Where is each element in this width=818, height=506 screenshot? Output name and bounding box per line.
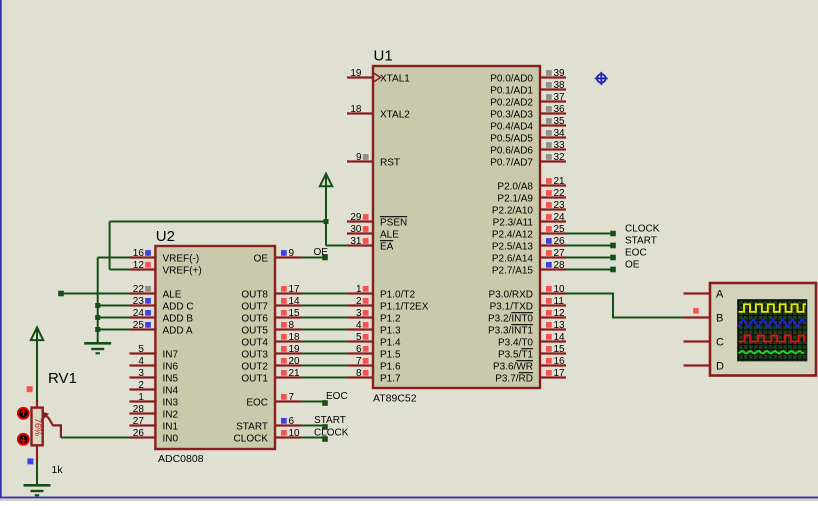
terminal EOC (U2 side) — [322, 400, 328, 406]
svg-text:8: 8 — [356, 368, 362, 379]
svg-text:CLOCK: CLOCK — [314, 428, 349, 439]
svg-text:36: 36 — [554, 104, 566, 115]
scope trace channel D (green wave) — [739, 351, 805, 354]
svg-text:P3.0/RXD: P3.0/RXD — [489, 290, 533, 301]
indicator square near channel B — [693, 308, 699, 314]
svg-text:5: 5 — [138, 344, 144, 355]
svg-text:14: 14 — [554, 332, 566, 343]
svg-text:XTAL2: XTAL2 — [380, 110, 410, 121]
svg-text:OE: OE — [254, 254, 269, 265]
svg-text:14: 14 — [289, 296, 301, 307]
svg-text:P3.6/WR: P3.6/WR — [493, 362, 533, 373]
pin 24 (ADD B) — [129, 308, 193, 325]
pin 7 (P1.6) — [347, 356, 401, 373]
svg-text:28: 28 — [133, 404, 145, 415]
wire OUT1 to P1.7 — [301, 377, 347, 379]
svg-text:39: 39 — [554, 68, 566, 79]
svg-text:ALE: ALE — [380, 230, 399, 241]
junction at ADD C branch — [95, 303, 100, 308]
terminal OE (U1 side) — [610, 267, 616, 273]
indicator square near RV1 — [27, 386, 33, 392]
wire OUT6 to P1.2 — [301, 317, 347, 319]
svg-text:P1.6: P1.6 — [380, 362, 401, 373]
pin 14 (P3.4/T0) — [498, 332, 566, 349]
pin 1 (P1.0/T2) — [347, 284, 415, 301]
svg-text:22: 22 — [133, 284, 145, 295]
pin 24 (P2.3/A11) — [493, 212, 566, 229]
pin 33 (P0.6/AD6) — [490, 140, 566, 157]
svg-text:OUT2: OUT2 — [241, 362, 268, 373]
pin 23 (ADD C) — [129, 296, 193, 313]
svg-text:VREF(+): VREF(+) — [163, 266, 202, 277]
svg-text:9: 9 — [289, 248, 295, 259]
RV1 wiper wire (red part) — [45, 415, 61, 438]
oscilloscope body — [710, 283, 816, 376]
svg-text:27: 27 — [133, 416, 145, 427]
wire U1 P2 to terminal START — [566, 245, 610, 247]
IC U1 AT89C52 body — [373, 66, 540, 388]
oscilloscope channel A pin — [684, 289, 725, 301]
svg-text:4: 4 — [356, 320, 362, 331]
pin 15 (OUT6) — [241, 308, 301, 325]
wire U2 EOC to terminal — [301, 401, 322, 403]
scope trace channel B (blue wave) — [739, 319, 805, 327]
pin 26 (IN0) — [129, 428, 178, 445]
svg-text:P1.1/T2EX: P1.1/T2EX — [380, 302, 429, 313]
svg-text:29: 29 — [350, 212, 362, 223]
wire branch to ADD A — [98, 329, 130, 331]
indicator square near RV1 bottom — [27, 458, 33, 464]
svg-text:1: 1 — [138, 392, 144, 403]
svg-text:P3.1/TXD: P3.1/TXD — [490, 302, 533, 313]
wire wiper to U2 IN0 — [61, 437, 130, 439]
svg-text:1k: 1k — [52, 464, 64, 476]
RV1 top pin — [36, 400, 38, 408]
pin 9 (RST) — [347, 152, 400, 169]
svg-text:P2.7/A15: P2.7/A15 — [492, 266, 534, 277]
scope trace channel A (yellow square wave) — [739, 304, 807, 312]
pin 12 (P3.2/INT0) — [488, 308, 566, 325]
svg-text:P1.2: P1.2 — [380, 314, 401, 325]
svg-text:EA: EA — [380, 242, 394, 253]
svg-text:32: 32 — [554, 152, 566, 163]
svg-text:OUT6: OUT6 — [241, 314, 268, 325]
svg-text:18: 18 — [350, 104, 362, 115]
svg-text:IN2: IN2 — [163, 410, 179, 421]
svg-text:P0.0/AD0: P0.0/AD0 — [490, 74, 533, 85]
wire branch to ADD C — [98, 305, 130, 307]
svg-text:P1.0/T2: P1.0/T2 — [380, 290, 415, 301]
svg-text:P1.4: P1.4 — [380, 338, 401, 349]
svg-text:P2.5/A13: P2.5/A13 — [492, 242, 534, 253]
svg-text:76%: 76% — [33, 418, 43, 436]
pin 22 (ALE) — [129, 284, 181, 301]
svg-text:4: 4 — [138, 356, 144, 367]
pin 18 (OUT4) — [241, 332, 301, 349]
svg-text:START: START — [314, 415, 346, 426]
pin 1 (IN3) — [129, 392, 178, 409]
RV1 decrement handle (down) — [18, 434, 29, 445]
svg-text:17: 17 — [554, 368, 566, 379]
terminal START (U1 side) — [610, 243, 616, 249]
svg-text:AT89C52: AT89C52 — [373, 393, 417, 405]
pin 21 (P2.0/A8) — [497, 176, 566, 193]
svg-text:24: 24 — [133, 308, 145, 319]
svg-text:21: 21 — [289, 368, 301, 379]
wire OUT7 to P1.1 — [301, 305, 347, 307]
pin 21 (OUT1) — [241, 368, 301, 385]
svg-text:23: 23 — [133, 296, 145, 307]
svg-text:10: 10 — [554, 284, 566, 295]
svg-text:15: 15 — [554, 344, 566, 355]
svg-text:CLOCK: CLOCK — [625, 224, 660, 235]
pin 19 (XTAL1) — [347, 68, 410, 85]
svg-text:7: 7 — [289, 392, 295, 403]
svg-text:12: 12 — [133, 260, 145, 271]
svg-text:IN0: IN0 — [163, 434, 179, 445]
wire U1 P2 to terminal CLOCK — [566, 233, 610, 235]
junction EA/VREF+ net — [324, 219, 329, 224]
wire U2 ALE to left terminal — [61, 293, 130, 295]
svg-text:37: 37 — [554, 92, 566, 103]
svg-text:11: 11 — [554, 296, 565, 307]
svg-text:ADD B: ADD B — [163, 314, 194, 325]
pin 7 (EOC) — [246, 392, 301, 409]
svg-text:IN4: IN4 — [163, 386, 179, 397]
potentiometer RV1 body — [32, 408, 43, 446]
origin marker (blue crosshair) — [595, 72, 608, 85]
pin 9 (OE) — [254, 248, 301, 265]
svg-text:P3.4/T0: P3.4/T0 — [498, 338, 533, 349]
svg-text:EOC: EOC — [246, 398, 268, 409]
svg-text:IN3: IN3 — [163, 398, 179, 409]
RV1 increment handle (up) — [18, 408, 29, 419]
junction at ADD A branch — [95, 327, 100, 332]
pin 10 (P3.0/RXD) — [489, 284, 566, 301]
terminal on ALE wire — [58, 291, 64, 297]
oscilloscope channel B pin — [684, 313, 724, 325]
svg-text:OE: OE — [314, 247, 329, 258]
pin 25 (P2.4/A12) — [492, 224, 566, 241]
svg-text:5: 5 — [356, 332, 362, 343]
svg-text:IN5: IN5 — [163, 374, 179, 385]
svg-text:OUT3: OUT3 — [241, 350, 268, 361]
pin 3 (P1.2) — [347, 308, 401, 325]
pin 27 (IN1) — [129, 416, 178, 433]
power terminal (VCC arrow) above RV1 — [31, 327, 43, 340]
svg-text:P1.5: P1.5 — [380, 350, 401, 361]
pin 28 (IN2) — [129, 404, 178, 421]
pin 6 (START) — [236, 416, 301, 433]
svg-text:P0.6/AD6: P0.6/AD6 — [490, 146, 533, 157]
svg-text:27: 27 — [554, 248, 566, 259]
svg-text:ADD A: ADD A — [163, 326, 193, 337]
svg-text:25: 25 — [554, 224, 566, 235]
scope trace channel C (red square wave) — [739, 335, 805, 341]
editor left border line — [0, 0, 2, 501]
svg-text:9: 9 — [356, 152, 362, 163]
svg-text:P0.3/AD3: P0.3/AD3 — [490, 110, 533, 121]
svg-text:OUT4: OUT4 — [241, 338, 268, 349]
wire down to VREF(+) row — [109, 222, 111, 270]
svg-text:OE: OE — [625, 260, 640, 271]
svg-text:P0.2/AD2: P0.2/AD2 — [490, 98, 533, 109]
pin 4 (P1.3) — [347, 320, 401, 337]
svg-text:D: D — [716, 361, 724, 373]
svg-text:1: 1 — [356, 284, 362, 295]
pin 15 (P3.5/T1) — [498, 344, 566, 361]
pin 37 (P0.2/AD2) — [490, 92, 566, 109]
RV1 wiper arrow — [43, 412, 48, 417]
svg-text:19: 19 — [350, 68, 362, 79]
wire U1 P2 to terminal OE — [566, 269, 610, 271]
pin 18 (XTAL2) — [347, 104, 410, 121]
pin 2 (P1.1/T2EX) — [347, 296, 429, 313]
pin 5 (P1.4) — [347, 332, 401, 349]
svg-text:33: 33 — [554, 140, 566, 151]
terminal CLOCK (U2 side) — [322, 436, 328, 442]
svg-text:3: 3 — [138, 368, 144, 379]
terminal CLOCK (U1 side) — [610, 231, 616, 237]
svg-text:18: 18 — [289, 332, 301, 343]
svg-text:13: 13 — [554, 320, 566, 331]
wire OUT2 to P1.6 — [301, 365, 347, 367]
svg-text:P2.3/A11: P2.3/A11 — [493, 218, 534, 229]
pin 17 (OUT8) — [241, 284, 301, 301]
pin 36 (P0.3/AD3) — [490, 104, 566, 121]
svg-text:26: 26 — [133, 428, 145, 439]
svg-text:12: 12 — [554, 308, 566, 319]
svg-text:EOC: EOC — [326, 391, 348, 402]
svg-text:22: 22 — [554, 188, 566, 199]
oscilloscope screen — [737, 299, 807, 361]
pin 3 (IN5) — [129, 368, 178, 385]
svg-text:20: 20 — [289, 356, 301, 367]
pin 19 (OUT3) — [241, 344, 301, 361]
pin 5 (IN7) — [129, 344, 178, 361]
svg-text:CLOCK: CLOCK — [234, 434, 269, 445]
wire P3.0/RXD to oscilloscope channel B — [566, 294, 684, 318]
svg-text:31: 31 — [350, 236, 362, 247]
wire OUT8 to P1.0 — [301, 293, 347, 295]
wire U2 START to terminal — [301, 425, 322, 427]
svg-text:P0.1/AD1: P0.1/AD1 — [490, 86, 533, 97]
svg-text:P1.3: P1.3 — [380, 326, 401, 337]
wire U2 CLOCK to terminal — [301, 437, 322, 439]
pin 8 (P1.7) — [347, 368, 401, 385]
wire power arrow down to EA — [325, 176, 327, 246]
wire U2 OE to terminal — [301, 257, 322, 259]
power terminal (VCC arrow) near U1 — [320, 174, 332, 187]
pin 32 (P0.7/AD7) — [490, 152, 566, 169]
svg-text:P3.5/T1: P3.5/T1 — [498, 350, 533, 361]
ground symbol below VREF(-) net — [84, 342, 111, 345]
pin 22 (P2.1/A9) — [497, 188, 566, 205]
svg-text:P2.6/A14: P2.6/A14 — [492, 254, 534, 265]
pin 17 (P3.7/RD) — [495, 368, 566, 385]
wire EA horizontal to U1 pin 31 — [326, 245, 347, 247]
ground symbol below RV1 — [24, 484, 51, 487]
pin 26 (P2.5/A13) — [492, 236, 566, 253]
svg-text:OUT7: OUT7 — [241, 302, 268, 313]
svg-text:OUT5: OUT5 — [241, 326, 268, 337]
wire junction left toward VREF(+) — [110, 221, 326, 223]
svg-text:ADC0808: ADC0808 — [158, 453, 204, 465]
svg-text:15: 15 — [289, 308, 301, 319]
svg-text:RV1: RV1 — [48, 370, 77, 387]
pin 12 (VREF(+)) — [129, 260, 201, 277]
svg-text:OUT1: OUT1 — [241, 374, 268, 385]
wire OUT5 to P1.3 — [301, 329, 347, 331]
pin 27 (P2.6/A14) — [492, 248, 566, 265]
svg-text:P2.0/A8: P2.0/A8 — [497, 182, 533, 193]
svg-text:B: B — [716, 313, 723, 325]
svg-text:35: 35 — [554, 116, 566, 127]
pin 13 (P3.3/INT1) — [488, 320, 566, 337]
editor bottom border line — [0, 497, 818, 499]
pin 10 (CLOCK) — [234, 428, 301, 445]
pin 16 (P3.6/WR) — [493, 356, 566, 373]
svg-text:START: START — [625, 236, 657, 247]
svg-text:P0.5/AD5: P0.5/AD5 — [490, 134, 533, 145]
pin 30 (ALE) — [347, 224, 399, 241]
pin 38 (P0.1/AD1) — [490, 80, 566, 97]
wire U1 P2 to terminal EOC — [566, 257, 610, 259]
svg-text:IN1: IN1 — [163, 422, 179, 433]
oscilloscope channel D pin — [684, 361, 725, 373]
svg-text:16: 16 — [133, 248, 145, 259]
svg-text:A: A — [716, 289, 724, 301]
svg-text:23: 23 — [554, 200, 566, 211]
IC U2 ADC0808 body — [155, 246, 275, 449]
svg-text:6: 6 — [356, 344, 362, 355]
svg-text:P2.4/A12: P2.4/A12 — [492, 230, 534, 241]
svg-text:8: 8 — [289, 320, 295, 331]
wire into VREF(+) pin 12 — [110, 269, 130, 271]
pin 8 (OUT5) — [241, 320, 301, 337]
svg-text:24: 24 — [554, 212, 566, 223]
pin 14 (OUT7) — [241, 296, 301, 313]
pin 11 (P3.1/TXD) — [490, 296, 566, 313]
svg-text:10: 10 — [289, 428, 301, 439]
wire power arrow to RV1 top — [36, 329, 38, 400]
svg-text:IN7: IN7 — [163, 350, 179, 361]
svg-text:XTAL1: XTAL1 — [380, 74, 410, 85]
svg-text:P1.7: P1.7 — [380, 374, 401, 385]
wire RV1 bottom to ground — [36, 462, 38, 485]
svg-text:P3.3/INT1: P3.3/INT1 — [488, 326, 533, 337]
svg-text:ADD C: ADD C — [163, 302, 194, 313]
svg-text:2: 2 — [138, 380, 144, 391]
RV1 bottom pin — [36, 445, 38, 462]
svg-text:PSEN: PSEN — [380, 218, 407, 229]
pin 31 (EA) — [347, 236, 394, 253]
svg-text:VREF(-): VREF(-) — [163, 254, 200, 265]
svg-text:17: 17 — [289, 284, 301, 295]
svg-text:C: C — [716, 337, 724, 349]
pin 25 (ADD A) — [129, 320, 192, 337]
svg-text:38: 38 — [554, 80, 566, 91]
svg-text:25: 25 — [133, 320, 145, 331]
pin 2 (IN4) — [129, 380, 178, 397]
wire VREF(-) pin 16 to vertical — [98, 257, 130, 259]
wire OUT3 to P1.5 — [301, 353, 347, 355]
svg-text:16: 16 — [554, 356, 566, 367]
svg-text:U1: U1 — [374, 48, 393, 65]
svg-text:26: 26 — [554, 236, 566, 247]
svg-text:6: 6 — [289, 416, 295, 427]
pin 16 (VREF(-)) — [129, 248, 199, 265]
pin 29 (PSEN) — [347, 212, 407, 229]
svg-text:U2: U2 — [156, 228, 175, 245]
junction at ADD B branch — [95, 315, 100, 320]
pin 23 (P2.2/A10) — [492, 200, 566, 217]
svg-text:ALE: ALE — [163, 290, 182, 301]
svg-text:30: 30 — [350, 224, 362, 235]
svg-text:P3.2/INT0: P3.2/INT0 — [488, 314, 533, 325]
svg-text:28: 28 — [554, 260, 566, 271]
terminal START (U2 side) — [322, 424, 328, 430]
bottom gray strip — [0, 498, 818, 501]
svg-text:START: START — [236, 422, 268, 433]
svg-text:EOC: EOC — [625, 248, 647, 259]
oscilloscope channel C pin — [684, 337, 725, 349]
wire branch to ADD B — [98, 317, 130, 319]
svg-text:3: 3 — [356, 308, 362, 319]
svg-text:P2.2/A10: P2.2/A10 — [492, 206, 534, 217]
svg-text:P0.7/AD7: P0.7/AD7 — [490, 158, 533, 169]
pin 6 (P1.5) — [347, 344, 401, 361]
terminal EOC (U1 side) — [610, 255, 616, 261]
terminal OE (U2 side) — [322, 255, 328, 261]
pin 4 (IN6) — [129, 356, 178, 373]
wire vertical VREF(-) down to ground — [97, 258, 99, 344]
svg-text:P0.4/AD4: P0.4/AD4 — [490, 122, 533, 133]
pin 20 (OUT2) — [241, 356, 301, 373]
wire OUT4 to P1.4 — [301, 341, 347, 343]
svg-text:19: 19 — [289, 344, 301, 355]
pin 28 (P2.7/A15) — [492, 260, 566, 277]
svg-text:IN6: IN6 — [163, 362, 179, 373]
pin 39 (P0.0/AD0) — [490, 68, 566, 85]
svg-text:OUT8: OUT8 — [241, 290, 268, 301]
svg-text:P2.1/A9: P2.1/A9 — [497, 194, 533, 205]
svg-text:RST: RST — [380, 158, 400, 169]
svg-text:P3.7/RD: P3.7/RD — [495, 374, 533, 385]
svg-text:21: 21 — [554, 176, 566, 187]
svg-text:34: 34 — [554, 128, 566, 139]
svg-text:2: 2 — [356, 296, 362, 307]
pin 35 (P0.4/AD4) — [490, 116, 566, 133]
pin 34 (P0.5/AD5) — [490, 128, 566, 145]
svg-text:7: 7 — [356, 356, 362, 367]
